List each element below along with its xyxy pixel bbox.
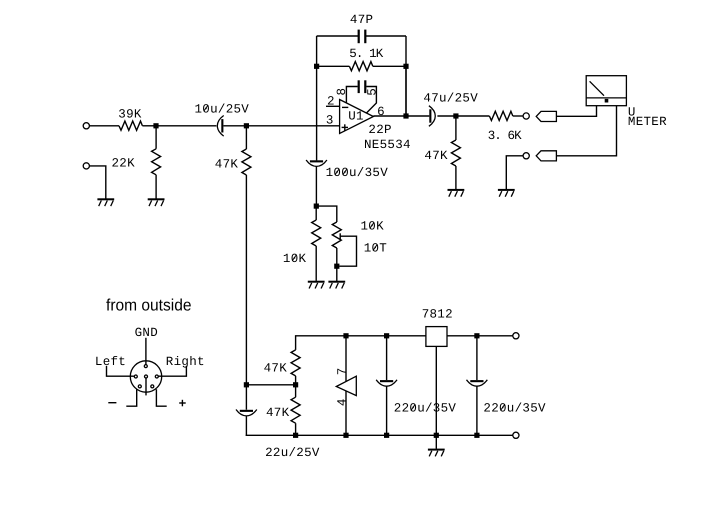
op-amp U1 NE5534 triangle bbox=[340, 100, 374, 134]
wire C1 to node B bbox=[224, 125, 248, 127]
wire node C to divider mid bbox=[246, 384, 295, 386]
top rail left bbox=[295, 335, 426, 337]
wire C8 to bottom rail bbox=[476, 386, 478, 435]
resistor R7 10K bbox=[315, 206, 317, 220]
terminal J3 bbox=[523, 113, 529, 119]
meter adjust dot bbox=[605, 99, 609, 103]
capacitor C8 220u/35V bbox=[476, 336, 478, 380]
node I wiper join bbox=[334, 264, 339, 269]
wire minus pin bbox=[126, 389, 136, 406]
node P below 7812 bbox=[434, 433, 439, 438]
wire 7812 ground pin bbox=[435, 346, 437, 435]
wiper loop wire bbox=[339, 236, 356, 266]
svg-text:220u/35V: 220u/35V bbox=[394, 402, 457, 416]
wire meter - terminal bbox=[556, 106, 616, 156]
regulator U2 7812 bbox=[426, 327, 447, 347]
svg-text:10T: 10T bbox=[364, 242, 388, 256]
DIN pin plus bbox=[151, 385, 154, 388]
wire 47P top rail right bbox=[366, 35, 406, 37]
ground below R5 bbox=[448, 189, 465, 191]
node F at feedback takeoff bbox=[403, 113, 408, 118]
wire C3 to pin 5 bbox=[366, 87, 376, 114]
wire node A to C1 bbox=[156, 125, 216, 127]
svg-text:NE5534: NE5534 bbox=[364, 138, 411, 152]
svg-text:10K: 10K bbox=[283, 252, 307, 266]
trimmer wiper tick bbox=[339, 233, 341, 239]
svg-text:39K: 39K bbox=[118, 107, 142, 121]
wire R10 to bottom rail bbox=[295, 423, 297, 435]
resistor R4 5.1K bbox=[349, 62, 372, 71]
ground terminal J2 bbox=[83, 163, 89, 169]
trimmer R8 10K 10T bbox=[332, 222, 341, 248]
terminal J4 bbox=[523, 153, 529, 159]
svg-text:METER: METER bbox=[628, 115, 667, 129]
supply ground bbox=[428, 449, 445, 451]
wire R2 to ground bbox=[155, 175, 157, 199]
DIN center key line bbox=[145, 378, 147, 395]
wire node H to trimmer bbox=[316, 206, 337, 222]
svg-text:Right: Right bbox=[166, 355, 205, 369]
plus sign at pin 3 bbox=[342, 126, 348, 128]
DIN pin center bbox=[145, 375, 148, 378]
meter needle bbox=[590, 81, 604, 95]
wire C6 to bottom rail bbox=[245, 416, 247, 436]
capacitor C5 100u/35V bbox=[310, 160, 323, 162]
ground below J4 bbox=[498, 189, 515, 191]
svg-text:47K: 47K bbox=[264, 361, 288, 375]
DIN pin GND bbox=[144, 365, 147, 368]
svg-text:from outside: from outside bbox=[106, 295, 192, 314]
svg-text:7812: 7812 bbox=[422, 308, 453, 322]
ground below trimmer bbox=[328, 281, 345, 283]
DIN socket X1 body bbox=[130, 361, 161, 392]
resistor R9 47K upper bbox=[295, 337, 297, 350]
capacitor C1 10u/25V bbox=[221, 119, 223, 132]
wire C4 to node G bbox=[437, 115, 456, 117]
svg-text:7: 7 bbox=[335, 367, 349, 375]
node J divider mid bbox=[293, 382, 298, 387]
node K divider bottom bbox=[293, 433, 298, 438]
wire R3 down to power section node C bbox=[245, 175, 247, 385]
svg-text:3. 6K: 3. 6K bbox=[488, 129, 522, 143]
svg-text:3: 3 bbox=[326, 114, 334, 128]
resistor R5 47K bbox=[455, 116, 457, 140]
capacitor C4 47u/25V bbox=[429, 109, 431, 122]
node L zener top bbox=[343, 333, 348, 338]
compensation capacitor C3 22P plates bbox=[358, 80, 360, 93]
node N cap C7 top bbox=[384, 333, 389, 338]
DIN pin minus bbox=[138, 385, 141, 388]
DIN pin left bbox=[134, 375, 137, 378]
wire 7812 output bbox=[447, 335, 513, 337]
meter M1 body bbox=[586, 76, 626, 106]
ground below R2 bbox=[148, 198, 165, 200]
node Q cap C8 top bbox=[474, 333, 479, 338]
feedback right vertical lower bbox=[405, 66, 407, 116]
wire J1 to R1 bbox=[89, 125, 119, 127]
svg-text:2: 2 bbox=[327, 95, 335, 109]
svg-text:10K: 10K bbox=[361, 220, 385, 234]
svg-text:47P: 47P bbox=[350, 13, 373, 27]
capacitor C6 22u/25V bbox=[245, 385, 247, 410]
node G bbox=[453, 113, 458, 118]
feedback right vertical upper bbox=[405, 36, 407, 66]
capacitor C7 220u/35V bbox=[386, 336, 388, 380]
zener D1 wire lower bbox=[345, 391, 347, 435]
wire R5 to ground bbox=[455, 166, 457, 189]
DIN pin right bbox=[155, 375, 158, 378]
node D on 5.1K rail left bbox=[314, 64, 319, 69]
resistor R10 47K lower bbox=[295, 385, 297, 397]
wire node G to R6 bbox=[456, 115, 490, 117]
node O cap C7 bottom bbox=[384, 433, 389, 438]
svg-text:100u/35V: 100u/35V bbox=[326, 166, 389, 180]
node A bbox=[153, 123, 158, 128]
wire trimmer bottom bbox=[336, 248, 338, 281]
svg-text:47K: 47K bbox=[424, 149, 448, 163]
wire GND pin bbox=[145, 338, 147, 365]
svg-text:6: 6 bbox=[377, 105, 385, 119]
svg-text:10u/25V: 10u/25V bbox=[195, 102, 250, 116]
ground below R7 bbox=[308, 281, 325, 283]
resistor R6 3.6K bbox=[489, 111, 512, 120]
ground below J2 bbox=[97, 198, 114, 200]
connector tag P1 bbox=[536, 111, 556, 121]
svg-text:5. 1K: 5. 1K bbox=[349, 47, 383, 61]
label plus bbox=[179, 402, 186, 404]
svg-text:47u/25V: 47u/25V bbox=[423, 92, 478, 106]
svg-text:Left: Left bbox=[95, 355, 126, 369]
wire C3 to pin 8 bbox=[346, 87, 357, 103]
svg-text:5: 5 bbox=[365, 88, 379, 96]
svg-text:47K: 47K bbox=[215, 158, 239, 172]
wire 47P top rail left bbox=[317, 35, 358, 37]
bottom rail bbox=[246, 434, 513, 436]
wire P1 to meter + bbox=[556, 106, 596, 117]
svg-text:220u/35V: 220u/35V bbox=[483, 402, 546, 416]
wire R1 to node A bbox=[142, 125, 157, 127]
wire node D to R4 bbox=[317, 65, 350, 67]
minus sign at pin 2 bbox=[342, 106, 348, 108]
resistor R2 22K bbox=[155, 126, 157, 149]
node H bbox=[314, 204, 319, 209]
wire plus pin bbox=[156, 389, 166, 406]
wire C5 to node H bbox=[315, 167, 317, 207]
node E on 5.1K rail right bbox=[403, 64, 408, 69]
svg-text:47K: 47K bbox=[266, 406, 290, 420]
wire to supply ground bbox=[435, 435, 437, 449]
svg-text:U1: U1 bbox=[348, 110, 364, 124]
connector tag P2 bbox=[536, 151, 556, 161]
wire J2 to ground bbox=[89, 166, 105, 199]
zener D1 wire upper bbox=[345, 336, 347, 382]
regulator label 7812 terminal V+ bbox=[513, 333, 519, 339]
wire pin 6 to C4 bbox=[373, 115, 429, 117]
node B bbox=[244, 123, 249, 128]
svg-text:22u/25V: 22u/25V bbox=[265, 446, 320, 460]
capacitor C2 47P bbox=[358, 30, 360, 44]
wire Left pin bbox=[107, 366, 135, 376]
svg-text:4: 4 bbox=[336, 398, 350, 406]
resistor R1 39K bbox=[119, 121, 142, 130]
wire node B to op-amp pin 3 bbox=[246, 125, 339, 127]
pin 2 stub bbox=[326, 105, 340, 107]
wire J4 to ground bbox=[506, 156, 523, 189]
resistor R3 47K bbox=[245, 126, 247, 149]
node C power takeoff bbox=[244, 382, 249, 387]
svg-text:22K: 22K bbox=[112, 157, 136, 171]
wire R7 to ground bbox=[315, 246, 317, 281]
wire R4 to node E bbox=[373, 65, 406, 67]
wire C7 to bottom rail bbox=[386, 386, 388, 435]
wire Right pin bbox=[158, 366, 186, 376]
zener D1 triangle bbox=[336, 376, 356, 395]
label minus bbox=[108, 402, 116, 404]
feedback left vertical wire bbox=[316, 36, 318, 160]
node M zener bottom bbox=[343, 433, 348, 438]
wire R6 to J3 bbox=[513, 115, 523, 117]
node R cap C8 bottom bbox=[474, 433, 479, 438]
svg-text:22P: 22P bbox=[368, 123, 391, 137]
terminal V- bottom bbox=[513, 432, 519, 438]
input terminal J1 bbox=[83, 123, 89, 129]
